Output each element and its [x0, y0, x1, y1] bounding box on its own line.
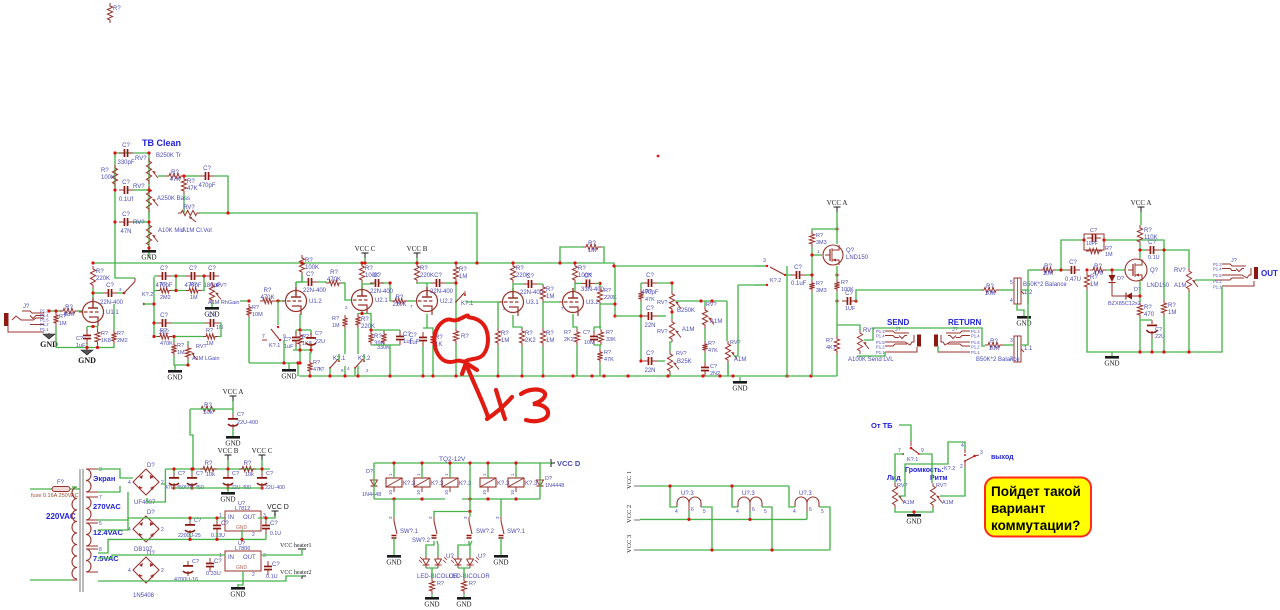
- svg-text:R?: R?: [588, 241, 596, 247]
- svg-text:C?: C?: [160, 266, 168, 272]
- relay contact K?.1 mid: [455, 291, 474, 307]
- pot RV? A1M out: [1186, 268, 1198, 292]
- wire pot to jack: [1195, 279, 1215, 281]
- capacitor C? 22N-400 U21b: [370, 273, 384, 287]
- svg-text:B250K: B250K: [677, 308, 695, 314]
- bridge rectifier 1N5408: [128, 551, 164, 583]
- svg-text:1M: 1M: [501, 338, 509, 344]
- resistor R? 47K: [166, 170, 184, 183]
- svg-text:R?: R?: [459, 267, 467, 273]
- wire relay drops: [373, 463, 375, 499]
- svg-text:C?: C?: [192, 559, 199, 565]
- relay K?.3 coil 1: [386, 473, 416, 495]
- wire relay drops r: [539, 463, 541, 499]
- pin 9 k1b: [341, 368, 344, 373]
- wire rail drop4: [669, 374, 671, 376]
- svg-text:R?: R?: [332, 316, 339, 322]
- svg-text:LED-BICOLOR: LED-BICOLOR: [449, 574, 490, 580]
- pin 1 qsend: [817, 249, 820, 254]
- svg-text:R?: R?: [1094, 264, 1102, 270]
- svg-text:R?: R?: [160, 282, 167, 288]
- label LND150 out: [1147, 283, 1170, 289]
- svg-text:1M: 1M: [190, 295, 198, 301]
- svg-text:3: 3: [99, 467, 102, 473]
- resistor R? 110K: [1137, 225, 1157, 245]
- svg-text:B25K: B25K: [677, 359, 692, 365]
- capacitor C? 4700U-16: [183, 559, 199, 576]
- svg-text:6: 6: [809, 507, 812, 513]
- wire coil2 conn: [732, 486, 738, 507]
- junction u12 grid: [247, 299, 279, 302]
- relay contact K?.2 fx: [755, 258, 786, 286]
- value 10k b1: [206, 472, 215, 478]
- wire return path: [937, 346, 939, 352]
- capacitor C? 47U-450 a: [169, 471, 185, 488]
- svg-text:1M: 1M: [546, 294, 554, 300]
- svg-text:470K: 470K: [160, 341, 173, 347]
- svg-text:22N-400: 22N-400: [303, 288, 327, 294]
- wire coil1 conn: [670, 486, 677, 507]
- value 47U-450 a: [165, 485, 185, 491]
- value 4700U-16: [174, 577, 198, 583]
- wire VCC C drop: [364, 258, 366, 263]
- label R? 2K2 u32: [564, 330, 571, 336]
- svg-text:C?: C?: [1148, 240, 1156, 246]
- wire mid feed: [434, 463, 470, 517]
- junction ts2 bus: [639, 281, 713, 362]
- svg-text:10PF: 10PF: [1086, 241, 1098, 247]
- value 10M: [252, 312, 263, 318]
- inductor U?.3 relay coil 3: [793, 491, 824, 515]
- svg-text:P1.1: P1.1: [876, 350, 885, 355]
- svg-text:U?.3: U?.3: [681, 491, 694, 497]
- label R? 1M vlg: [177, 343, 184, 349]
- wire send lvl: [837, 290, 981, 376]
- ground RhGain: [204, 305, 219, 319]
- svg-text:1M: 1M: [177, 350, 185, 356]
- svg-text:2M2: 2M2: [117, 338, 128, 344]
- svg-text:R?: R?: [59, 314, 66, 320]
- wire coil3 tap: [806, 511, 808, 519]
- svg-text:GND: GND: [1104, 360, 1119, 368]
- svg-text:1K8: 1K8: [101, 338, 111, 344]
- wire U1.2 plate net: [296, 275, 303, 287]
- svg-text:2: 2: [366, 368, 369, 373]
- wire vcc3 rail: [640, 549, 830, 551]
- value 2M2 g: [160, 295, 171, 301]
- label TB Clean: [142, 138, 181, 148]
- wire u21 grid: [342, 283, 351, 300]
- wire ts2 out: [734, 285, 766, 356]
- resistor R? 100K send: [834, 279, 839, 292]
- capacitor C? 0.33U r6: [206, 558, 222, 572]
- wire main ground rail: [299, 375, 837, 377]
- capacitor C? 22N ts2a: [643, 306, 657, 329]
- resistor R? 10k b1: [200, 461, 217, 472]
- ground vcca: [225, 433, 240, 448]
- wire k1 out: [283, 340, 285, 363]
- connector J? return jack: [934, 327, 980, 355]
- svg-text:R?: R?: [461, 334, 469, 340]
- wire u22 grid chain: [390, 283, 392, 301]
- ground U1.1 cathode: [78, 347, 96, 365]
- label A1M lid: [903, 500, 915, 506]
- resistor R? 3M3 a: [809, 231, 814, 247]
- svg-text:VCC A: VCC A: [1131, 199, 1152, 207]
- value 2N2: [710, 371, 720, 377]
- resistor R? 220K u22 grid: [392, 295, 407, 308]
- resistor R? 10K out: [1040, 264, 1056, 277]
- wire u22 out node: [445, 282, 456, 284]
- label 1N5408: [133, 593, 155, 599]
- svg-text:C?: C?: [214, 559, 222, 565]
- svg-text:R?: R?: [205, 461, 213, 467]
- wire u21 cath: [345, 311, 400, 377]
- value 22U-400 c: [265, 485, 285, 491]
- capacitor C? 470pF ts2: [641, 273, 658, 296]
- value 1UF send: [845, 306, 856, 312]
- label R? 470K lg: [160, 328, 167, 334]
- svg-text:33K: 33K: [606, 337, 616, 343]
- label R? 100K send: [841, 280, 848, 286]
- value 22U-400 b: [231, 485, 251, 491]
- svg-text:BZX85C12x2: BZX85C12x2: [1108, 301, 1141, 307]
- svg-text:Пойдет такой: Пойдет такой: [991, 484, 1081, 499]
- svg-text:P1.5: P1.5: [1213, 273, 1222, 278]
- svg-text:Q?: Q?: [846, 248, 855, 254]
- wire cap to relay: [117, 292, 124, 294]
- svg-text:GND: GND: [1016, 320, 1031, 328]
- capacitor C? 180pF: [203, 266, 220, 289]
- pin 2 u31: [503, 306, 506, 311]
- value 100K send: [841, 287, 854, 293]
- svg-text:A1M RhGain: A1M RhGain: [208, 300, 240, 306]
- svg-text:R?: R?: [986, 284, 994, 290]
- svg-text:22U-400: 22U-400: [265, 485, 285, 491]
- capacitor C? 0.1uF fx: [791, 265, 805, 279]
- wire c3: [133, 221, 149, 223]
- svg-text:D?: D?: [147, 551, 155, 557]
- value 1M g: [190, 295, 198, 301]
- svg-text:4700U-16: 4700U-16: [174, 577, 198, 583]
- svg-text:4: 4: [1010, 298, 1013, 304]
- capacitor C? 10PF feedback: [1084, 228, 1104, 250]
- svg-text:1uF: 1uF: [409, 340, 420, 346]
- svg-text:GND: GND: [167, 374, 182, 382]
- svg-text:R?: R?: [501, 331, 509, 337]
- svg-text:R?: R?: [604, 350, 611, 356]
- svg-text:10: 10: [482, 489, 487, 495]
- transformer secondary 7.5VAC: [86, 547, 102, 572]
- svg-text:R?: R?: [244, 461, 252, 467]
- svg-text:10: 10: [388, 489, 393, 495]
- wire plate to cap: [93, 292, 103, 294]
- svg-text:A10K Mid: A10K Mid: [158, 228, 184, 234]
- wire 6v out: [261, 549, 302, 555]
- svg-text:P1.2: P1.2: [971, 345, 980, 350]
- svg-text:7: 7: [410, 304, 413, 309]
- junction b rail: [172, 467, 263, 489]
- value 3M3 b: [816, 288, 827, 294]
- pot RV? B50K*2 balance 2: [976, 336, 1033, 363]
- svg-text:R?: R?: [1168, 303, 1176, 309]
- svg-text:От ТБ: От ТБ: [871, 421, 893, 430]
- svg-text:R?: R?: [420, 266, 428, 272]
- svg-text:3: 3: [263, 553, 266, 559]
- svg-text:C?: C?: [794, 265, 802, 271]
- svg-text:K?.2: K?.2: [944, 466, 955, 472]
- wire 12v bot: [98, 539, 266, 553]
- resistor R? 1K8 U1.1: [95, 329, 100, 345]
- label R? 47K b: [708, 341, 715, 347]
- svg-text:K?.2: K?.2: [142, 292, 153, 298]
- wire sw4 stem: [500, 499, 502, 517]
- wire gate: [1106, 269, 1125, 271]
- resistor R? 10k b2: [239, 461, 256, 472]
- value 22N-400 U1.2: [303, 288, 327, 294]
- wire fb right: [1104, 240, 1164, 250]
- svg-text:B50K*2 Balance: B50K*2 Balance: [976, 357, 1020, 363]
- wire vcca cap gnd: [232, 429, 234, 434]
- ground b rail: [220, 488, 235, 504]
- wire pots gnd: [895, 508, 933, 512]
- label R? 1M u21: [332, 316, 339, 322]
- svg-text:R?: R?: [841, 280, 848, 286]
- svg-text:100K: 100K: [101, 175, 115, 181]
- resistor R? 220K u21: [355, 314, 375, 330]
- wire gain left vertical: [154, 276, 157, 337]
- label C? 1uF a: [76, 336, 83, 342]
- wire input: [49, 310, 62, 312]
- wire 110k down: [1139, 245, 1141, 259]
- wire ts2 row3: [657, 360, 665, 362]
- wire ts2 row1: [657, 283, 672, 291]
- svg-text:C?: C?: [122, 180, 130, 186]
- svg-text:RV?: RV?: [897, 483, 908, 489]
- svg-text:C?: C?: [232, 471, 239, 477]
- wire u12 cath net: [293, 330, 311, 363]
- wire relay 4 leads: [487, 463, 489, 478]
- wire bass mid: [148, 212, 150, 218]
- stray red mark: [657, 155, 660, 158]
- svg-text:47K: 47K: [604, 357, 614, 363]
- svg-text:RETURN: RETURN: [948, 318, 982, 327]
- value 1uF u12: [284, 344, 294, 350]
- op-amp U3.1 triode: [499, 288, 539, 316]
- wire cathode bus U1.1: [56, 304, 115, 348]
- label R? 2M2 g: [160, 282, 167, 288]
- label Q? send: [846, 248, 855, 254]
- svg-text:22N: 22N: [644, 323, 655, 329]
- svg-text:GND: GND: [236, 565, 248, 571]
- wire ts2 pots link2: [670, 342, 672, 351]
- junction gate send: [810, 227, 857, 302]
- wire relay bot rail b: [462, 498, 540, 500]
- capacitor C? 2200U-25: [185, 518, 201, 535]
- capacitor C? 10PF sym: [1087, 234, 1101, 242]
- label R? led2: [469, 581, 476, 587]
- svg-text:U2.2: U2.2: [440, 299, 453, 305]
- pin 4 k2b: [347, 366, 350, 371]
- wire vcc1 rail: [640, 485, 789, 487]
- value 4K7: [826, 345, 836, 351]
- svg-text:C?: C?: [160, 313, 168, 319]
- wire 12v in: [98, 518, 226, 530]
- wire ts2 pot5 gnd: [727, 363, 729, 376]
- value 47K b: [708, 348, 718, 354]
- svg-text:R?: R?: [469, 581, 476, 587]
- label R? 47K ts2: [645, 289, 652, 295]
- label R? 2M2: [117, 331, 124, 337]
- svg-text:10M: 10M: [584, 340, 595, 346]
- svg-text:R?: R?: [708, 341, 715, 347]
- relay contact SW?.2 a: [428, 516, 437, 538]
- svg-text:RV?: RV?: [216, 283, 227, 289]
- svg-text:470: 470: [1144, 312, 1155, 318]
- wire source down: [1139, 281, 1141, 302]
- label B250K Tr: [156, 153, 181, 159]
- wire coil3 conn: [789, 486, 795, 507]
- svg-text:1M: 1M: [1090, 282, 1098, 288]
- value 2200U-25: [178, 533, 201, 539]
- bridge rectifier UF4007: [128, 463, 164, 506]
- svg-text:1uF: 1uF: [76, 343, 86, 349]
- wire 0.1U to pot: [1159, 250, 1189, 268]
- label D? 1N4448 l: [366, 469, 373, 475]
- label RV? ts2e: [730, 340, 741, 346]
- svg-text:U1.1: U1.1: [106, 310, 119, 316]
- svg-text:коммутации?: коммутации?: [991, 518, 1080, 533]
- label R? led1: [437, 581, 444, 587]
- svg-text:UF4007: UF4007: [134, 500, 156, 506]
- capacitor C? 22N ts2b: [643, 351, 657, 374]
- svg-text:R?: R?: [396, 295, 404, 301]
- svg-text:P1.4: P1.4: [971, 334, 980, 339]
- wire u22 cath: [423, 314, 433, 377]
- wire u22 grid2: [407, 300, 416, 302]
- wire r1m src top: [1163, 250, 1165, 300]
- capacitor C? 2n2: [157, 313, 171, 336]
- value 10PF: [1086, 241, 1098, 247]
- wire bal up: [1027, 270, 1029, 291]
- wire g mid: [171, 276, 186, 291]
- svg-text:10k: 10k: [203, 410, 214, 416]
- svg-text:L7806: L7806: [235, 546, 250, 552]
- wire treble out: [158, 175, 166, 177]
- svg-text:4: 4: [347, 366, 350, 371]
- label R? 3M3 a: [816, 233, 823, 239]
- svg-text:2M2: 2M2: [160, 295, 171, 301]
- resistor R? 3M3 b: [809, 280, 814, 292]
- svg-text:GND: GND: [281, 373, 296, 381]
- value 47K u32: [604, 357, 614, 363]
- pin 7 u32: [561, 306, 564, 311]
- value 0.33U r6: [206, 571, 221, 577]
- pot RV? B250K ts2: [669, 291, 681, 312]
- power VCC heater1: [280, 543, 312, 552]
- relay contact SW?.1 a: [388, 516, 419, 538]
- label B250K ts2: [677, 308, 695, 314]
- svg-text:10K: 10K: [1043, 271, 1054, 277]
- wire cap01 link: [1140, 249, 1145, 251]
- svg-text:D?: D?: [366, 469, 373, 475]
- power VCC heater2: [280, 570, 312, 579]
- svg-text:J?: J?: [1231, 258, 1237, 264]
- svg-text:C?: C?: [203, 166, 211, 172]
- wire ekran: [98, 469, 133, 478]
- wire b rail drops: [174, 460, 262, 473]
- label Q? out: [1150, 268, 1159, 274]
- wire led2 join: [458, 568, 470, 578]
- value 0.1U out: [1148, 255, 1160, 261]
- wire 3m3 mid: [811, 247, 813, 280]
- svg-text:5: 5: [1010, 280, 1013, 286]
- svg-text:VCC B: VCC B: [218, 447, 239, 455]
- svg-text:220K: 220K: [361, 324, 375, 330]
- relay K?.3 coil 2: [414, 473, 444, 495]
- value 0.33U r12: [211, 533, 225, 539]
- svg-text:IN: IN: [228, 515, 234, 521]
- junction top rail: [91, 261, 615, 267]
- wire c470 right: [214, 176, 228, 213]
- svg-text:10K: 10K: [985, 291, 996, 297]
- label 12.4VAC: [93, 528, 123, 537]
- relay K?.3 coil 5: [508, 473, 538, 495]
- svg-text:C?: C?: [76, 336, 83, 342]
- wire to cap047: [1056, 269, 1066, 271]
- value 33K u32: [606, 337, 616, 343]
- wire 270a: [98, 486, 120, 492]
- wire ts2 feed: [615, 283, 643, 361]
- wire U2.1 plate net: [362, 283, 390, 289]
- svg-text:C?: C?: [237, 412, 244, 418]
- wire ts2 pot3 gnd: [669, 374, 671, 376]
- svg-text:A1M: A1M: [942, 500, 954, 506]
- wire bridge1 out: [161, 469, 165, 484]
- svg-text:R?: R?: [546, 331, 554, 337]
- pin 7 u22: [410, 304, 413, 309]
- wire plate U1.1: [92, 288, 94, 298]
- wire relay 1 leads: [393, 463, 395, 478]
- op-amp U2.2 triode: [413, 287, 453, 315]
- capacitor C? 0.1Uf: [119, 180, 134, 203]
- svg-text:1: 1: [482, 473, 487, 476]
- svg-text:RV?: RV?: [135, 156, 147, 162]
- svg-text:47K: 47K: [187, 186, 198, 192]
- svg-text:0.1U: 0.1U: [270, 531, 281, 537]
- wire ts2 row2b: [657, 315, 666, 317]
- svg-text:VCC C: VCC C: [355, 245, 376, 253]
- svg-text:RV?: RV?: [657, 329, 668, 335]
- svg-text:R?: R?: [437, 581, 444, 587]
- wire lid top: [895, 454, 903, 483]
- svg-text:8: 8: [99, 547, 102, 553]
- label SW?.2 a: [412, 538, 431, 544]
- wire rh gnd: [211, 303, 213, 306]
- label 7.5VAC: [93, 554, 119, 563]
- pot RV? A250K Bass: [133, 184, 158, 212]
- svg-text:3: 3: [980, 450, 983, 456]
- svg-text:22U-400: 22U-400: [237, 420, 258, 426]
- svg-text:3: 3: [463, 516, 468, 519]
- wire U3.2 plate net: [575, 283, 600, 291]
- svg-text:2: 2: [161, 568, 164, 574]
- diode U? LED-BICOLOR 1: [419, 554, 454, 568]
- label R? 1M g: [190, 282, 197, 288]
- label B25K ts2: [677, 359, 692, 365]
- pot RV? A1M ts2c: [725, 341, 737, 363]
- resistor R? 47K u32: [597, 349, 602, 363]
